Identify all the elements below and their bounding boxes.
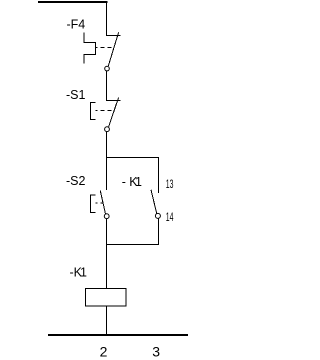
start button S2 moving contact (NO) bbox=[100, 190, 105, 214]
wire S2 to coil K1 bbox=[106, 219, 108, 289]
wire coil K1 to bottom rail bbox=[106, 306, 108, 335]
contactor K1 aux contact moving contact (NO) bbox=[151, 190, 157, 214]
svg-text:-S2: -S2 bbox=[66, 174, 86, 188]
S1 push-button actuator bbox=[91, 103, 96, 120]
svg-text:-F4: -F4 bbox=[67, 18, 86, 32]
breaker F4 moving contact bbox=[108, 32, 118, 66]
svg-text:-K1: -K1 bbox=[122, 175, 142, 189]
stop button S1 contact circle bbox=[105, 127, 110, 132]
thermal overload release of F4 bbox=[84, 33, 96, 64]
svg-text:3: 3 bbox=[152, 343, 160, 359]
breaker F4 contact seat bbox=[107, 35, 121, 37]
mechanical link S1 (dashed) bbox=[96, 110, 114, 112]
stop button S1 moving contact (NC) bbox=[109, 97, 119, 127]
branch wire from K1 contact back to bus bbox=[107, 218, 159, 244]
breaker F4 contact circle bbox=[105, 66, 110, 71]
svg-text:-S1: -S1 bbox=[66, 88, 86, 102]
stop button S1 contact seat bbox=[107, 100, 121, 102]
mechanical link S2 (dashed) bbox=[96, 202, 103, 204]
start button S2 contact circle bbox=[104, 214, 109, 219]
wire from top rail down to F4 contact bbox=[106, 1, 108, 36]
top supply rail L1 bbox=[38, 1, 108, 3]
svg-text:-K1: -K1 bbox=[70, 266, 88, 280]
contactor coil K1 bbox=[86, 288, 127, 306]
branch wire to K1 contact bbox=[107, 158, 159, 193]
S2 push-button actuator bbox=[91, 195, 96, 213]
svg-text:13: 13 bbox=[166, 178, 174, 191]
svg-text:2: 2 bbox=[100, 343, 108, 359]
svg-text:14: 14 bbox=[166, 211, 174, 224]
contactor K1 aux contact circle bbox=[155, 213, 160, 218]
wire F4 to S1 bbox=[106, 70, 108, 101]
bottom rail N bbox=[48, 334, 188, 336]
mechanical link F4 (dashed) bbox=[96, 47, 114, 49]
wire S1 to S2 with branch node bbox=[106, 131, 108, 189]
